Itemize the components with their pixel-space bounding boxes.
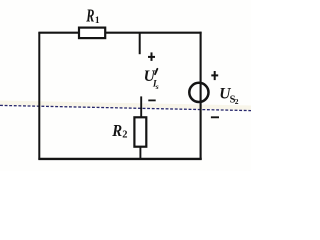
voltage source U_S2 circle — [189, 83, 208, 102]
svg-text:R: R — [86, 6, 95, 26]
wire bottom horizontal — [38, 158, 201, 160]
svg-text:2: 2 — [122, 130, 127, 141]
node - polarity (middle) — [148, 99, 155, 101]
wire below R2 — [139, 147, 141, 160]
wire right vertical — [200, 32, 202, 160]
wire left vertical — [38, 32, 40, 160]
node + polarity (right) — [211, 71, 218, 80]
resistor R2 — [134, 117, 146, 146]
svg-text:2: 2 — [235, 97, 239, 106]
svg-text:s: s — [155, 82, 159, 91]
svg-text:R: R — [111, 121, 122, 140]
wire middle stub upper — [139, 33, 141, 55]
dashed cut line — [0, 105, 251, 110]
node - polarity (right) — [211, 116, 219, 118]
wire middle stub lower — [140, 96, 142, 117]
svg-text:1: 1 — [95, 16, 100, 26]
resistor R1 — [79, 28, 105, 38]
node + polarity (middle) — [148, 52, 155, 61]
wire top horizontal — [38, 32, 201, 34]
